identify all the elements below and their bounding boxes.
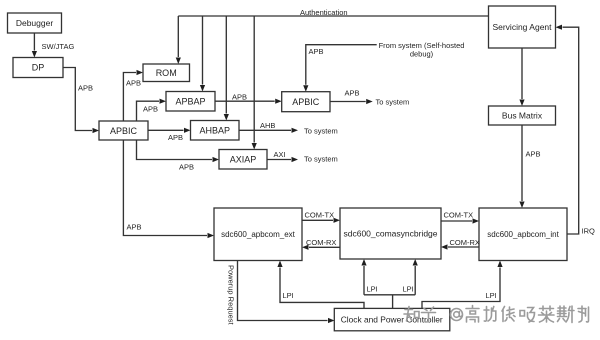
- wire LPI clock to bridge left: [361, 259, 366, 295]
- wire COM-RX bridge to ext: [302, 245, 340, 250]
- wire APBIC to APBAP (APB): [137, 99, 167, 121]
- box Clock and Power Controller: [334, 308, 450, 330]
- box APBIC left: [99, 121, 148, 140]
- svg-text:IRQ: IRQ: [582, 227, 596, 236]
- box sdc600_apbcom_ext: [214, 208, 302, 261]
- svg-text:COM-RX: COM-RX: [306, 238, 336, 247]
- wire APBIC right to system (APB): [330, 99, 373, 104]
- svg-text:APBAP: APBAP: [175, 97, 205, 107]
- glyph at: [451, 309, 463, 321]
- svg-text:APB: APB: [232, 93, 247, 102]
- wire Authentication drop to ROM: [176, 16, 181, 64]
- svg-text:COM-TX: COM-TX: [305, 211, 335, 220]
- glyph gao: [466, 306, 479, 323]
- svg-text:To system: To system: [304, 155, 338, 164]
- wire AXIAP to system (AXI): [267, 157, 298, 162]
- svg-text:COM-RX: COM-RX: [450, 238, 480, 247]
- svg-text:Clock and Power Controller: Clock and Power Controller: [341, 314, 443, 324]
- svg-text:ROM: ROM: [156, 68, 177, 78]
- svg-text:COM-TX: COM-TX: [444, 211, 474, 220]
- svg-text:AHBAP: AHBAP: [199, 126, 230, 136]
- box sdc600_comasyncbridge: [340, 208, 441, 259]
- box APBAP: [166, 92, 215, 112]
- wire LPI clock to bridge right: [413, 259, 418, 295]
- svg-text:APB: APB: [168, 133, 183, 142]
- wire Powerup Request ext to Clock and Power Controller: [238, 261, 335, 324]
- glyph hu: [422, 307, 436, 322]
- svg-text:APB: APB: [143, 105, 158, 114]
- wire Debugger to DP (SW/JTAG): [32, 33, 37, 58]
- wire APBIC to AXIAP (APB): [137, 140, 220, 162]
- wire APBIC to ROM (APB): [123, 70, 143, 121]
- svg-text:sdc600_comasyncbridge: sdc600_comasyncbridge: [343, 229, 437, 239]
- box APBIC right: [282, 92, 330, 112]
- glyph zhi: [404, 307, 419, 322]
- glyph pao: [484, 307, 496, 322]
- svg-text:APB: APB: [179, 163, 194, 172]
- box ROM: [143, 64, 190, 82]
- svg-text:sdc600_apbcom_ext: sdc600_apbcom_ext: [221, 230, 296, 239]
- svg-text:Servicing Agent: Servicing Agent: [492, 22, 552, 32]
- svg-text:APBIC: APBIC: [292, 97, 320, 107]
- box AXIAP: [219, 150, 267, 170]
- box DP: [13, 58, 63, 78]
- svg-text:To system: To system: [304, 127, 338, 136]
- svg-text:DP: DP: [32, 63, 45, 73]
- svg-text:APB: APB: [526, 150, 541, 159]
- wire Servicing Agent to Bus Matrix: [519, 48, 524, 106]
- svg-text:sdc600_apbcom_int: sdc600_apbcom_int: [487, 230, 559, 239]
- svg-text:APB: APB: [309, 47, 324, 56]
- glyph li: [578, 306, 589, 322]
- svg-text:Debugger: Debugger: [16, 18, 54, 28]
- svg-text:AXI: AXI: [274, 150, 286, 159]
- box sdc600_apbcom_int: [479, 208, 567, 261]
- wire Authentication drop to AHBAP: [224, 16, 229, 121]
- wire COM-TX bridge to int: [441, 218, 479, 223]
- svg-text:APB: APB: [126, 79, 141, 88]
- box Servicing Agent: [489, 6, 556, 48]
- svg-text:AHB: AHB: [260, 121, 275, 130]
- svg-text:Bus Matrix: Bus Matrix: [502, 111, 543, 121]
- svg-text:LPI: LPI: [283, 291, 294, 300]
- wire LPI clock to int: [422, 261, 503, 309]
- box Bus Matrix: [489, 106, 556, 125]
- wire LPI clock to ext: [277, 261, 364, 309]
- svg-text:LPI: LPI: [486, 291, 497, 300]
- wire DP to APBIC (APB): [63, 68, 99, 134]
- wire Bus Matrix to sdc600_apbcom_int (APB): [519, 125, 524, 208]
- wire Authentication bus: [178, 15, 488, 17]
- box AHBAP: [191, 121, 240, 141]
- watermark zhihu user (vector approximation of CJK glyphs): [404, 306, 589, 323]
- svg-text:SW/JTAG: SW/JTAG: [42, 42, 75, 51]
- svg-text:APBIC: APBIC: [110, 126, 138, 136]
- wire LPI crossbar to clock top: [364, 295, 415, 308]
- glyph xi: [520, 308, 535, 323]
- svg-text:LPI: LPI: [403, 285, 414, 294]
- glyph di: [502, 307, 515, 322]
- wire COM-TX ext to bridge: [302, 218, 340, 223]
- wire AHBAP to system (AHB): [239, 128, 298, 133]
- wire Authentication drop to APBAP: [200, 16, 205, 92]
- glyph si: [558, 306, 575, 323]
- wire IRQ sdc600_apbcom_int to Servicing Agent: [556, 25, 579, 234]
- wire From system to APBIC right (APB): [303, 45, 377, 92]
- svg-text:APB: APB: [127, 223, 142, 232]
- wire APBIC to AHBAP (APB): [148, 128, 191, 133]
- wire APBIC to sdc600_apbcom_ext (APB): [123, 140, 214, 238]
- svg-text:LPI: LPI: [367, 285, 378, 294]
- svg-text:APB: APB: [345, 89, 360, 98]
- svg-text:AXIAP: AXIAP: [230, 155, 257, 165]
- glyph lai: [539, 306, 555, 322]
- svg-text:APB: APB: [78, 84, 93, 93]
- wire Authentication drop to AXIAP: [252, 16, 257, 150]
- svg-text:debug): debug): [410, 50, 434, 59]
- svg-text:Powerup Request: Powerup Request: [227, 265, 236, 326]
- wire COM-RX int to bridge: [441, 244, 479, 249]
- box Debugger: [8, 13, 62, 33]
- svg-text:Authentication: Authentication: [300, 8, 348, 17]
- wire APBAP to APBIC right (APB): [215, 99, 282, 104]
- svg-text:To system: To system: [376, 98, 410, 107]
